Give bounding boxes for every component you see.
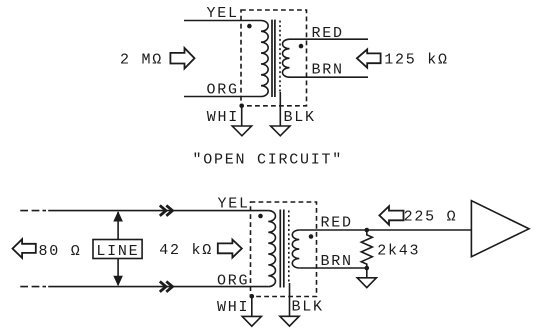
transformer T2 secondary winding xyxy=(292,230,299,268)
node junction dot (RED / resistor) xyxy=(365,228,370,233)
transformer T2 enclosure (dashed box) xyxy=(251,202,317,297)
wire BLK (T1 shield to ground) xyxy=(279,92,281,126)
chevron pair (top wire) xyxy=(160,205,173,215)
svg-text:"OPEN CIRCUIT": "OPEN CIRCUIT" xyxy=(193,151,344,168)
arrow 225 Ohm (left block arrow) xyxy=(379,206,403,225)
svg-text:2 MΩ: 2 MΩ xyxy=(120,51,163,68)
arrow 80 Ohm (left block arrow) xyxy=(13,239,36,258)
T2 core line 2 xyxy=(283,210,285,288)
T1 core line 1 xyxy=(271,20,273,97)
T2 secondary polarity dot xyxy=(309,234,314,239)
transformer T1 enclosure (dashed box) xyxy=(241,10,307,106)
svg-text:BLK: BLK xyxy=(284,109,316,126)
svg-text:225 Ω: 225 Ω xyxy=(404,209,458,226)
svg-text:BRN: BRN xyxy=(312,62,344,79)
wire RED (T1 secondary top lead) xyxy=(290,38,369,40)
svg-text:125 kΩ: 125 kΩ xyxy=(384,51,449,68)
T2 electrostatic shield (dotted) xyxy=(288,211,290,284)
svg-text:RED: RED xyxy=(312,25,344,42)
transformer T2 primary winding xyxy=(268,211,275,287)
T1 electrostatic shield (dotted) xyxy=(279,21,281,93)
node WHI junction dot (T2) xyxy=(250,294,255,299)
wire YEL bottom circuit xyxy=(48,210,268,212)
svg-text:80 Ω: 80 Ω xyxy=(39,243,82,260)
wire WHI to ground (T2) xyxy=(251,296,253,316)
transformer T1 secondary winding xyxy=(282,39,289,77)
wire resistor to ground xyxy=(366,268,368,278)
arrow 42 kOhm (right block arrow) xyxy=(218,240,242,258)
svg-text:ORG: ORG xyxy=(207,82,239,99)
svg-text:YEL: YEL xyxy=(207,5,239,22)
T2 core line 1 xyxy=(279,210,281,288)
wire RED to amplifier xyxy=(299,229,471,231)
transformer T1 primary winding xyxy=(261,20,268,96)
wire ORG bottom (T1 primary bottom lead) xyxy=(184,96,261,98)
T1 secondary polarity dot xyxy=(299,44,304,49)
wire YEL top (T1 primary top lead) xyxy=(184,20,261,22)
wire BRN (T1 secondary bottom lead) xyxy=(290,76,369,78)
arrow 2 MOhm (right block arrow) xyxy=(170,48,194,69)
LINE box xyxy=(93,240,142,259)
svg-text:42 kΩ: 42 kΩ xyxy=(159,242,213,259)
chevron pair (bottom wire) xyxy=(160,281,173,291)
svg-text:LINE: LINE xyxy=(96,243,139,260)
ground (below resistor) xyxy=(357,278,376,288)
ground (BLK T2) xyxy=(280,316,299,326)
wire ORG bottom circuit xyxy=(48,286,268,288)
wire BLK (T2 shield to ground) xyxy=(289,283,291,316)
T2 primary polarity dot xyxy=(258,214,263,219)
wire WHI to ground xyxy=(241,106,243,126)
ground (BLK) xyxy=(271,126,290,136)
svg-text:YEL: YEL xyxy=(218,196,250,213)
svg-text:WHI: WHI xyxy=(217,299,249,316)
node WHI junction dot xyxy=(239,104,244,109)
svg-text:RED: RED xyxy=(321,215,353,232)
svg-text:ORG: ORG xyxy=(217,273,249,290)
svg-text:BLK: BLK xyxy=(292,299,324,316)
wire dashed stub (bottom top-left) xyxy=(20,210,46,212)
svg-text:2k43: 2k43 xyxy=(377,242,420,259)
svg-text:WHI: WHI xyxy=(207,109,239,126)
wire BRN xyxy=(299,267,367,269)
resistor 2k43 xyxy=(361,230,372,268)
T1 core line 2 xyxy=(274,20,276,97)
T1 primary polarity dot xyxy=(247,24,252,29)
op-amp / amplifier triangle xyxy=(471,201,529,257)
node junction dot (BRN / resistor) xyxy=(365,266,370,271)
svg-text:BRN: BRN xyxy=(321,253,353,270)
ground (WHI) xyxy=(232,126,251,136)
ground (WHI T2) xyxy=(242,316,261,326)
arrow 125 kOhm (left block arrow) xyxy=(357,49,381,67)
line level double arrow xyxy=(117,212,119,285)
wire dashed stub (bottom bottom-left) xyxy=(20,286,46,288)
